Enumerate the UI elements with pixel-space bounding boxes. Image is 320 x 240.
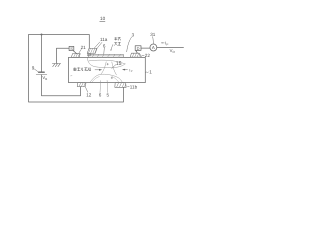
svg-text:B: B (45, 77, 47, 81)
electrode 22 pad (hatched) (130, 53, 140, 57)
plus mark upper (107, 63, 109, 65)
inner hill flank (92, 77, 100, 83)
gas arrow (111, 45, 113, 51)
leaders of 11a (94, 42, 102, 49)
switch box S (69, 46, 74, 50)
svg-text:31: 31 (150, 32, 156, 37)
label VB (42, 75, 47, 81)
wire: 22 to D box (136, 51, 138, 54)
leader of 6 bottom (99, 81, 102, 93)
display box D (135, 46, 141, 51)
label 22 (145, 53, 151, 58)
ammeter A (150, 44, 157, 51)
leader tilde of 1 (145, 71, 148, 74)
svg-text:10: 10 (100, 16, 106, 21)
svg-text:5: 5 (107, 92, 110, 97)
leader dash of 11b (128, 86, 130, 88)
electrode 11a block (dense hatch) (87, 48, 97, 53)
label 9 (32, 65, 35, 70)
electrode 11b pad (hatched) (115, 83, 126, 88)
svg-text:1: 1 (149, 70, 152, 75)
lower hill curve (90, 74, 122, 82)
leader of 31 (152, 37, 155, 45)
wire: battery branch lower to electrode 12 (42, 75, 81, 96)
plus mark lower (111, 77, 113, 79)
leader dash of 22 (142, 54, 144, 56)
battery B1 plate long thin (36, 74, 47, 76)
strip mid line (89, 55, 124, 57)
node junction dot (41, 34, 43, 36)
label 11b (130, 85, 138, 90)
leader of 21 (79, 49, 82, 53)
label 21 (81, 45, 87, 50)
flow arrow left (123, 69, 127, 71)
figure number 10 (100, 16, 106, 21)
leader of 9 (34, 69, 38, 72)
svg-text:O: O (173, 50, 176, 54)
label 15 (116, 61, 122, 67)
svg-text:11a: 11a (100, 37, 108, 42)
svg-text:6: 6 (99, 92, 102, 97)
underline of 10 (100, 20, 105, 22)
label 31 (150, 32, 156, 37)
neck left curve (101, 62, 106, 75)
label 1 (149, 70, 152, 75)
svg-text:P: P (131, 70, 133, 73)
label 5 bottom (107, 92, 110, 97)
label Ip inner (129, 68, 132, 73)
wire: D to ammeter (141, 47, 150, 49)
label Vo (170, 48, 176, 54)
porous layer strip (3) on top of substrate (89, 54, 124, 57)
ground (52, 64, 60, 67)
svg-text:15: 15 (116, 61, 122, 67)
gas molecules text (tiny) (114, 37, 120, 45)
wire: ammeter to output (157, 47, 184, 49)
wire: battery branch upper (41, 35, 43, 72)
svg-text:3: 3 (132, 33, 135, 38)
label 11a (100, 37, 108, 42)
label 6 top (103, 44, 106, 49)
label 6 bottom (99, 92, 102, 97)
battery B1 plate short thick (39, 71, 45, 73)
wire: ground branch (57, 48, 70, 63)
electrode 12 pad (hatched) (77, 83, 86, 87)
flow arrow right (95, 69, 99, 71)
label 3 (132, 33, 135, 38)
speck mark (71, 75, 72, 77)
leader of 3 (127, 37, 132, 52)
leader of 5 bottom (106, 80, 109, 92)
leader of 15 (112, 65, 116, 69)
label 12 (86, 92, 92, 97)
svg-text:D: D (137, 46, 140, 51)
current arrow Ip top (162, 42, 164, 44)
substrate body 1 (69, 57, 146, 82)
svg-text:22: 22 (145, 53, 151, 58)
wire: S to electrode 21 (73, 51, 77, 54)
svg-text:12: 12 (86, 92, 92, 97)
electron flow text (tiny) (73, 68, 90, 71)
cavity upper curve (89, 60, 125, 64)
svg-text:11b: 11b (130, 85, 138, 90)
leader of 12 (85, 87, 87, 92)
svg-text:P: P (166, 42, 168, 46)
svg-text:A: A (152, 45, 155, 50)
svg-text:S: S (70, 46, 73, 51)
small pad under 11a (87, 54, 91, 56)
svg-text:9: 9 (32, 65, 35, 70)
electrode 21 pad (hatched) (71, 54, 80, 58)
leader of 6 top (103, 48, 106, 54)
cavity lower curve (87, 58, 125, 68)
wire: outer loop left/top/bottom (29, 35, 124, 103)
neck right curve (112, 62, 117, 75)
